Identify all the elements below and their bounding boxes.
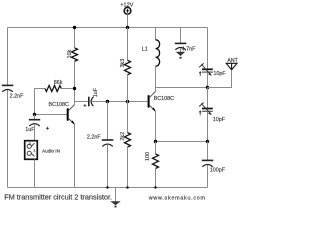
ground symbol at 4.7nF	[176, 52, 185, 59]
resistor 3k3	[125, 60, 131, 75]
wire 100pF to bottom rail corner	[207, 165, 209, 187]
inductor L1	[156, 40, 160, 66]
svg-text:BC108C: BC108C	[49, 102, 69, 108]
svg-text:86k: 86k	[54, 80, 63, 86]
wire 4.7nF column (rail to cap)	[180, 28, 182, 44]
junction dot 86k/10k/collector node	[73, 87, 76, 90]
wire 10k column bottom (R to 86k node)	[74, 61, 76, 88]
capacitor trimmer 10pF lower	[199, 103, 213, 116]
junction dot +12V on rail	[126, 26, 129, 29]
svg-text:Audio IN: Audio IN	[42, 148, 60, 153]
svg-text:www.skemaku.com: www.skemaku.com	[148, 195, 206, 201]
wire antenna to node	[208, 70, 232, 88]
wire left column lower (C 2.2nF to bottom rail)	[7, 90, 9, 188]
resistor 10k	[72, 48, 78, 62]
wire Q1 emitter to bottom rail	[74, 124, 76, 187]
resistor 2k2	[125, 133, 131, 148]
wire ground stub on bottom rail	[115, 188, 117, 202]
wire antenna node to trimmer 2	[207, 88, 209, 109]
svg-text:FM transmitter circuit 2 trans: FM transmitter circuit 2 transistor.	[4, 193, 112, 202]
wire Q2 collector stub	[155, 88, 157, 92]
ground symbol bottom	[110, 201, 120, 207]
capacitor 1uF interstage (polarized)	[83, 97, 93, 107]
wire Q1 collector column (86k node down to cap row)	[74, 89, 76, 105]
capacitor 4.7nF decoupling	[175, 43, 187, 49]
junction dot right column emitter row	[206, 140, 209, 143]
wire +12V stub	[127, 14, 129, 27]
wire 1uF to audio box	[34, 124, 36, 141]
wire bottom ground rail	[8, 187, 208, 189]
svg-text:3k3: 3k3	[120, 59, 126, 68]
svg-text:100pF: 100pF	[210, 167, 226, 173]
junction dot cap row / divider column	[126, 100, 129, 103]
resistor 86k	[45, 86, 61, 92]
wire L1 column bottom to collector node	[155, 66, 157, 87]
svg-text:L1: L1	[142, 46, 148, 52]
wire 100R column top	[155, 142, 157, 154]
wire 2.2nF mid column upper	[107, 102, 109, 140]
capacitor 1uF audio coupling	[29, 120, 49, 130]
wire audio column (node to 1uF)	[34, 115, 36, 120]
svg-text:4.7nF: 4.7nF	[182, 47, 196, 53]
capacitor trimmer 10pF upper	[199, 63, 213, 76]
svg-text:+12V: +12V	[120, 3, 133, 9]
svg-text:BC108C: BC108C	[154, 96, 174, 102]
transistor Q1 BC108C	[67, 105, 75, 125]
svg-text:10k: 10k	[67, 49, 73, 58]
junction dot top rail at 10k	[73, 26, 76, 29]
wire right column to 100pF	[207, 142, 209, 161]
svg-text:10pF: 10pF	[213, 71, 226, 77]
svg-text:1: 1	[33, 149, 35, 153]
svg-text:10pF: 10pF	[213, 117, 226, 123]
wire left column upper (rail to C 2.2nF)	[7, 28, 9, 86]
antenna ANT	[226, 63, 237, 70]
wire collector row to antenna node	[156, 87, 208, 89]
wire top supply rail	[8, 27, 208, 29]
junction dot 100R bottom rail	[154, 186, 156, 188]
wire cap row: C1uF to Q2 base	[92, 101, 148, 103]
svg-text:1uF: 1uF	[93, 87, 99, 97]
capacitor 100pF	[202, 160, 214, 166]
wire Q2 emitter column	[155, 111, 157, 141]
capacitor 2.2nF mid	[102, 140, 114, 146]
svg-text:2.2nF: 2.2nF	[10, 93, 24, 99]
svg-text:2: 2	[29, 142, 31, 146]
junction dot antenna node	[206, 86, 209, 89]
junction dot emitter node	[154, 140, 157, 143]
wire 4.7nF to ground symbol	[180, 48, 182, 52]
svg-text:2k2: 2k2	[120, 132, 126, 141]
wire 2.2nF mid column lower	[107, 144, 109, 187]
junction dot 2.2nF bottom rail	[106, 186, 108, 188]
junction dot divider bottom rail	[126, 186, 128, 188]
wire divider column (rail to 3k3)	[127, 28, 129, 61]
wire divider column (3k3 to base node)	[127, 75, 129, 133]
wire trimmer1 to antenna node	[207, 73, 209, 88]
resistor 100	[153, 154, 159, 169]
junction dot cap row / 2.2nF column	[106, 100, 109, 103]
wire L1 column top	[155, 28, 157, 40]
transistor Q2 BC108C	[148, 91, 156, 111]
junction dot base/audio node	[33, 113, 36, 116]
wire 10k column top (rail to R)	[74, 28, 76, 48]
wire trimmer2 to emitter row	[207, 112, 209, 142]
wire 86k left lead and corner down to base node	[35, 89, 46, 115]
wire audio box to bottom rail	[34, 160, 36, 188]
wire 100R column bottom	[155, 169, 157, 188]
supply symbol +12V	[124, 7, 131, 14]
svg-text:100: 100	[145, 152, 151, 161]
svg-text:1uF: 1uF	[25, 127, 35, 133]
wire divider column (2k2 to bottom rail)	[127, 147, 129, 187]
wire Q1 base	[35, 114, 67, 116]
svg-text:2.2nF: 2.2nF	[87, 134, 101, 140]
wire emitter output row	[156, 141, 208, 143]
wire right column (rail corner to trimmer 1)	[207, 28, 209, 69]
wire cap row: collector to C1uF	[75, 101, 89, 103]
connector Audio IN box	[25, 141, 38, 160]
capacitor 2.2nF left input	[2, 85, 14, 91]
wire 86k right lead to node	[61, 88, 74, 90]
svg-text:ANT: ANT	[227, 58, 238, 64]
